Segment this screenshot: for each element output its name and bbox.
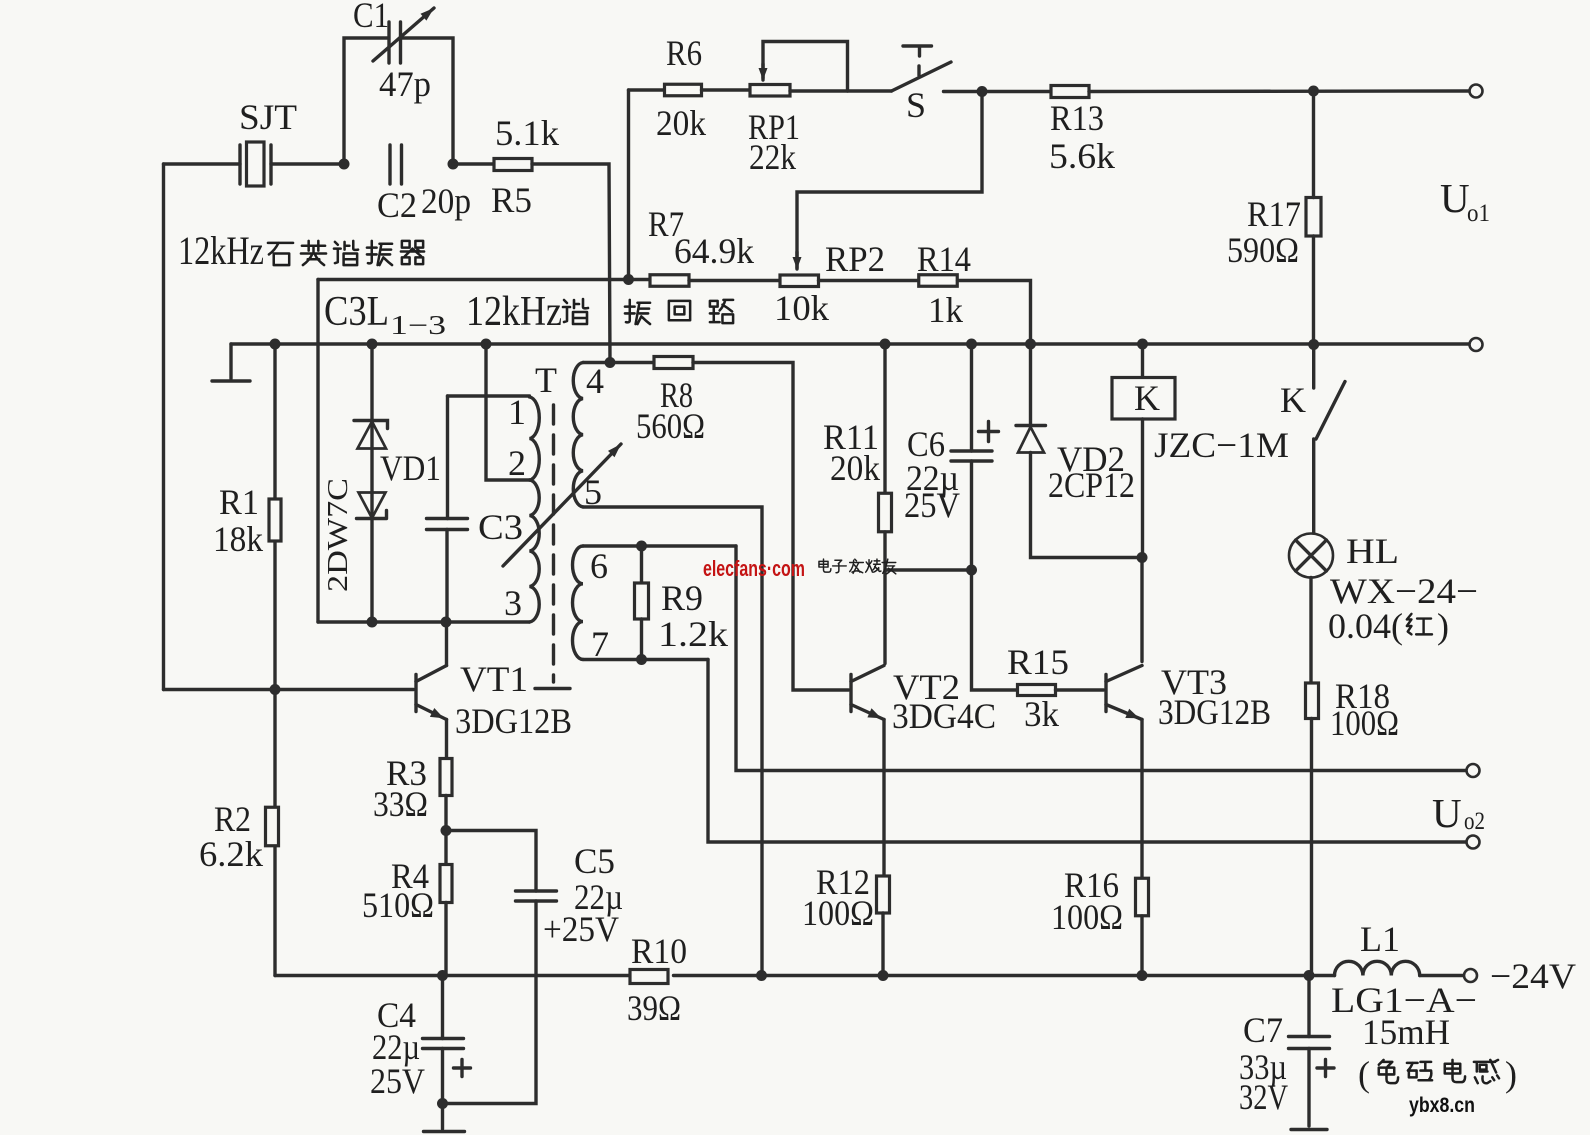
wire bottom of loop line (318, 620, 530, 623)
wire R11 to VT2 collector (883, 532, 886, 664)
svg-text:o2: o2 (1464, 808, 1485, 835)
svg-text:R15: R15 (1007, 642, 1069, 682)
svg-text:R13: R13 (1050, 98, 1104, 138)
resistor R17 (1306, 198, 1321, 237)
svg-text:1k: 1k (928, 290, 963, 330)
resistor R11 (879, 493, 892, 532)
svg-text:2CP12: 2CP12 (1048, 465, 1135, 505)
transformer T winding 6-7 (573, 546, 584, 659)
wire R16 to bottom bus (1140, 916, 1143, 976)
svg-text:3k: 3k (1024, 694, 1059, 734)
junction node S out (977, 86, 988, 97)
svg-text:L1: L1 (1360, 919, 1400, 959)
label char 感 (1474, 1060, 1499, 1083)
resistor R5 (494, 159, 532, 171)
label watermark char 1 (833, 560, 847, 572)
relay coil K (1112, 378, 1175, 420)
svg-text:1: 1 (508, 392, 526, 432)
junction node bus/R4/C4 (437, 970, 448, 981)
junction node R3/R4/C5 (441, 825, 452, 836)
wire winding7 bottom lead (583, 658, 708, 661)
wire R6 left drop to R7 (627, 90, 630, 280)
wire bottom bus left (275, 974, 633, 977)
resistor R7 (650, 275, 689, 287)
label char 回 (669, 301, 690, 320)
wire ground stub (229, 344, 232, 379)
wire C3 top lead (446, 396, 449, 519)
wire R11/C6 link (885, 568, 972, 571)
svg-text:15mH: 15mH (1362, 1012, 1450, 1052)
wire switch S to node (944, 90, 983, 93)
junction node bus/C7/L1 (1304, 970, 1315, 981)
svg-text:560Ω: 560Ω (636, 406, 705, 446)
wire VT1 collector lead (445, 622, 448, 666)
wire C6 bottom / to R15 (972, 461, 1018, 690)
wire R8 to VT2 base (693, 363, 849, 691)
svg-text:2DW7C: 2DW7C (322, 478, 354, 592)
arrow transformer variable (503, 444, 621, 566)
wire VT2 emitter lead (882, 720, 885, 877)
transistor VT3 3DG12B (1104, 675, 1107, 712)
svg-text:47p: 47p (379, 64, 431, 104)
junction node SJT/C1/C2 (339, 159, 350, 170)
svg-text:20k: 20k (830, 448, 880, 488)
switch S (892, 62, 952, 91)
junction node C6/R15 (966, 565, 977, 576)
wire R11 top lead (883, 344, 886, 494)
arrow RP1 wiper (761, 64, 764, 80)
junction node bus/K coil (1137, 339, 1148, 350)
junction node winding4/R8 (605, 357, 616, 368)
capacitor C7 (1289, 1037, 1330, 1049)
label watermark char 2 (850, 559, 864, 573)
svg-text:64.9k: 64.9k (674, 231, 754, 271)
arrow RP2 wiper (795, 252, 798, 269)
svg-text:ybx8.cn: ybx8.cn (1409, 1094, 1475, 1117)
junction node R13/R17 (1308, 86, 1319, 97)
resistor R14 (919, 275, 958, 287)
capacitor C3 (427, 519, 468, 530)
transformer core (dashed) (552, 405, 555, 682)
resistor R12 (877, 876, 890, 913)
svg-text:510Ω: 510Ω (362, 885, 434, 925)
svg-text:C5: C5 (574, 841, 615, 881)
svg-text:22k: 22k (749, 137, 796, 177)
junction node bus/tap2 (481, 339, 492, 350)
wire winding7 to Uo2 lower bus (708, 660, 1467, 843)
wire R17 top lead (1312, 91, 1315, 198)
plus sign plus C7 (1317, 1060, 1334, 1077)
svg-text:39Ω: 39Ω (627, 988, 681, 1028)
capacitor C4 (423, 1039, 464, 1049)
resistor R1 (269, 499, 281, 541)
wire winding1 top lead (448, 394, 530, 397)
svg-text:U: U (1432, 790, 1462, 836)
wire K contact top lead (1312, 345, 1315, 389)
resistor R4 (440, 865, 452, 903)
svg-text:S: S (906, 85, 926, 125)
svg-text:elecfans·com: elecfans·com (703, 556, 805, 581)
wire tap 2 lead (486, 344, 530, 480)
wire R6 to RP1 (702, 88, 751, 91)
ground ground top-left (212, 379, 250, 382)
svg-text:5.6k: 5.6k (1049, 136, 1115, 176)
label watermark char 3 (866, 559, 881, 572)
resistor R9 (635, 583, 649, 619)
svg-text:K: K (1280, 380, 1306, 420)
wire SJT left lead (164, 162, 241, 165)
svg-text:4: 4 (586, 361, 604, 401)
wire box left edge / VD1 frame (316, 280, 319, 623)
junction node bus/VD1 (367, 339, 378, 350)
wire C7 bottom lead (1307, 1049, 1310, 1127)
lamp HL (1289, 534, 1333, 578)
wire lamp to R18 (1309, 578, 1312, 684)
wire C1 branch left (344, 38, 388, 164)
wire to VT3 collector (1140, 558, 1143, 662)
wire R7 to RP2 (689, 279, 780, 282)
junction node VD1 bottom (367, 617, 378, 628)
label char 码 (1407, 1062, 1432, 1080)
transformer core ground bar (535, 687, 570, 690)
capacitor C6 (951, 451, 992, 461)
wire R9 top lead (640, 546, 643, 583)
wire R14 to bus (958, 281, 1031, 345)
wire R13 to Uo1 terminal (1089, 89, 1469, 93)
svg-text:33Ω: 33Ω (373, 784, 428, 824)
wire RP1 to switch S (790, 89, 892, 92)
plus sign plus C6 (979, 422, 999, 442)
diode VD2 (1016, 424, 1046, 427)
svg-text:(: ( (1358, 1054, 1370, 1094)
resistor R18 (1306, 683, 1319, 719)
svg-text:VT1: VT1 (460, 659, 528, 699)
label char 红 (1407, 614, 1432, 635)
wire winding6 to Uo2 upper bus (736, 546, 1467, 771)
wire R17 bottom lead (1312, 236, 1315, 344)
svg-text:2: 2 (508, 443, 526, 483)
label char 振 (367, 241, 392, 265)
wire R3 to R4 (444, 796, 447, 865)
wire R5 to transformer node (532, 164, 610, 363)
wire winding6 top lead (583, 544, 736, 547)
potentiometer RP2 (780, 275, 819, 287)
label char 石 (268, 243, 293, 265)
junction node winding7/R9 (636, 654, 647, 665)
junction node C4/C5 (437, 1098, 448, 1109)
svg-text:C1: C1 (353, 0, 389, 35)
transistor VT2 3DG4C (849, 675, 852, 712)
inductor L1 (1309, 974, 1335, 977)
wire R2 branch (273, 690, 276, 976)
wire C1 branch right (401, 38, 454, 164)
label char 振 (625, 300, 650, 324)
svg-text:WX−24−: WX−24− (1330, 571, 1478, 611)
svg-text:3DG4C: 3DG4C (892, 696, 996, 736)
transistor VT1 3DG12B (414, 675, 417, 712)
wire C4 bottom lead (441, 1049, 444, 1130)
svg-text:R1: R1 (219, 482, 259, 522)
wire S node to RP2 wiper (797, 92, 982, 269)
junction node R6/R7 (623, 274, 634, 285)
transformer T winding 2-3 (530, 480, 540, 622)
svg-text:3DG12B: 3DG12B (1158, 692, 1271, 732)
capacitor C5 (516, 891, 557, 901)
svg-text:K: K (1134, 378, 1160, 418)
svg-text:100Ω: 100Ω (1330, 703, 1399, 743)
wire main bus 12kHz loop (231, 342, 1469, 345)
svg-text:3DG12B: 3DG12B (455, 701, 572, 741)
wire C4 top lead (441, 976, 444, 1039)
svg-text:0.04(: 0.04( (1328, 606, 1403, 646)
wire R4 to bottom bus (444, 903, 447, 976)
terminal terminal Uo2 upper (1467, 764, 1480, 777)
wire R1 branch (273, 344, 276, 690)
diode VD1 lower zener (359, 493, 386, 519)
junction node bus/R16 (1137, 970, 1148, 981)
svg-text:R6: R6 (666, 33, 702, 73)
label char 路 (710, 300, 733, 323)
wire C5 top lead (446, 831, 536, 892)
svg-text:R17: R17 (1247, 194, 1301, 234)
terminal terminal Uo2 lower (1467, 836, 1480, 849)
svg-text:590Ω: 590Ω (1227, 230, 1299, 270)
wire K to lamp HL (1312, 439, 1315, 534)
svg-text:3: 3 (504, 583, 522, 623)
svg-text:HL: HL (1346, 531, 1399, 571)
resistor R8 (654, 357, 693, 369)
wire RP2 to R14 (819, 279, 920, 282)
svg-text:SJT: SJT (239, 97, 297, 137)
svg-text:20p: 20p (421, 181, 471, 221)
wire R12 to bottom bus (881, 913, 884, 976)
wire R9 bottom lead (640, 619, 643, 660)
wire RP1 wiper link (763, 42, 848, 92)
svg-text:JZC−1M: JZC−1M (1154, 425, 1289, 465)
svg-text:6: 6 (590, 546, 608, 586)
wire C3 bottom lead (445, 530, 448, 623)
junction node bus/C6 (966, 339, 977, 350)
junction node bus/R1 (270, 339, 281, 350)
label char 色 (1379, 1060, 1398, 1083)
capacitor C1 (variable) (389, 22, 401, 63)
wire C2 to R5 (453, 162, 494, 165)
wire bottom bus right (674, 974, 1310, 977)
terminal terminal bus right (1470, 338, 1483, 351)
wire VD2 cathode lead (1029, 344, 1032, 426)
svg-text:R9: R9 (661, 578, 703, 618)
svg-text:5.1k: 5.1k (495, 113, 559, 153)
svg-text:32V: 32V (1239, 1077, 1288, 1117)
label watermark char 4 (882, 559, 896, 574)
svg-text:12kHz: 12kHz (178, 228, 264, 273)
resistor R13 (1051, 86, 1089, 98)
svg-text:100Ω: 100Ω (1051, 897, 1123, 937)
svg-text:+25V: +25V (543, 909, 619, 949)
crystal SJT (240, 145, 271, 184)
switch contact K (1316, 382, 1345, 440)
label char 英 (301, 241, 326, 265)
svg-text:1.2k: 1.2k (658, 614, 728, 654)
label char 谐 (563, 299, 588, 324)
capacitor C2 (390, 145, 402, 184)
svg-text:C2: C2 (377, 185, 417, 225)
wire VT1 emitter lead (445, 720, 448, 759)
wire R15 to VT3 base (1056, 688, 1104, 691)
resistor R6 (665, 84, 702, 96)
wire VT1 base line (164, 688, 414, 691)
label char 谐 (334, 241, 358, 265)
junction node winding6/R9 (636, 541, 647, 552)
svg-text:12kHz: 12kHz (466, 289, 562, 335)
wire VD1 branch (370, 344, 373, 622)
wire VT3 emitter lead (1140, 720, 1143, 879)
svg-text:R14: R14 (917, 239, 971, 279)
svg-text:U: U (1440, 175, 1470, 221)
wire left feedback rail (162, 164, 165, 690)
terminal terminal Uo1 top (1470, 85, 1483, 98)
svg-text:o1: o1 (1467, 200, 1490, 227)
junction node C3/VT1 collector (441, 617, 452, 628)
label watermark char 0 (819, 559, 831, 572)
junction node bus/tap5 (756, 970, 767, 981)
arrow C1 variable (373, 8, 434, 61)
wire winding4 top lead (583, 361, 610, 364)
resistor R2 (266, 807, 279, 846)
wire C7 top lead (1307, 976, 1310, 1037)
svg-text:C7: C7 (1243, 1010, 1283, 1050)
svg-text:25V: 25V (370, 1061, 425, 1101)
potentiometer RP1 (750, 85, 790, 97)
ground ground C4 (424, 1130, 465, 1133)
resistor R16 (1136, 878, 1149, 916)
wire SJT to C2 node (271, 162, 344, 165)
svg-text:100Ω: 100Ω (802, 893, 874, 933)
svg-text:): ) (1505, 1054, 1517, 1094)
svg-text:25V: 25V (904, 485, 960, 525)
label char 器 (401, 241, 424, 264)
wire box top / R7 line left (318, 278, 650, 281)
resistor R15 (1018, 685, 1056, 696)
svg-text:R2: R2 (214, 799, 251, 839)
junction node bus/R11 (880, 339, 891, 350)
svg-text:R10: R10 (631, 931, 687, 971)
terminal terminal -24V (1464, 969, 1477, 982)
svg-text:): ) (1437, 606, 1449, 646)
svg-text:C3: C3 (478, 507, 523, 547)
resistor R3 (440, 759, 452, 796)
plus sign plus C4 (454, 1060, 471, 1077)
svg-text:6.2k: 6.2k (199, 834, 263, 874)
svg-text:20k: 20k (656, 103, 706, 143)
svg-text:T: T (535, 360, 557, 400)
diode VD1 upper zener (354, 421, 388, 429)
junction node C1/C2/R5 (448, 159, 459, 170)
resistor R10 (630, 970, 668, 984)
svg-text:1−3: 1−3 (390, 310, 446, 340)
wire to R8 (610, 361, 654, 364)
wire VD2 anode to K line (1031, 453, 1143, 558)
junction node bus/VD2 (1025, 339, 1036, 350)
svg-text:10k: 10k (774, 288, 829, 328)
junction node bus/R12 (878, 970, 889, 981)
svg-text:VD1: VD1 (380, 448, 441, 488)
svg-text:−24V: −24V (1490, 956, 1576, 996)
junction node VD2/K/VT3 (1137, 552, 1148, 563)
junction node base line/R1/R2 (270, 684, 281, 695)
label char 电 (1445, 1060, 1465, 1082)
junction node bus/K contact (1308, 339, 1319, 350)
svg-text:C3L: C3L (324, 289, 389, 335)
wire to R6 (629, 88, 665, 91)
wire K coil bottom lead (1141, 419, 1144, 558)
ground ground C7 (1291, 1128, 1327, 1131)
wire K coil top lead (1141, 344, 1144, 378)
svg-text:RP2: RP2 (825, 239, 885, 279)
svg-text:18k: 18k (213, 519, 263, 559)
wire tap 5 lead down (583, 507, 762, 976)
svg-text:R5: R5 (491, 180, 532, 220)
wire node to R13 (982, 90, 1051, 93)
wire C5 bottom lead (443, 901, 537, 1104)
wire C6 top lead (970, 344, 973, 451)
wire R18 to bottom bus (1310, 719, 1313, 976)
